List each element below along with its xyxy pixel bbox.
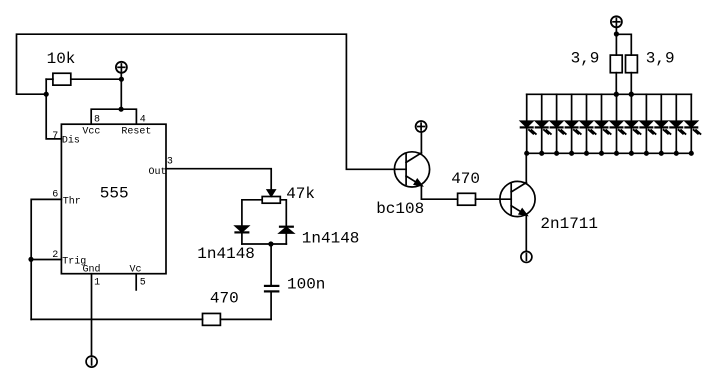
svg-text:470: 470 (451, 170, 480, 188)
resistor R3 470 body (base) (458, 193, 476, 205)
LED diode (x=541.7) (536, 94, 551, 153)
svg-text:1n4148: 1n4148 (197, 245, 255, 263)
junction on LED cathode bus (689, 151, 694, 156)
node junction VCC/10k (119, 77, 124, 82)
svg-text:Vcc: Vcc (82, 127, 100, 138)
diode D2 1n4148 (right, cathode up) (280, 227, 294, 233)
svg-text:Out: Out (149, 167, 167, 178)
wire Q2 collector to LED bus (525, 153, 527, 182)
junction on LED cathode bus (644, 151, 649, 156)
resistor R2 470 body (bottom) (203, 313, 221, 325)
resistor R5 3,9 body (right) (626, 55, 638, 73)
wire junction to capacitor (270, 244, 272, 285)
node junction Dis/10k (44, 92, 49, 97)
wire LED anode bus (527, 93, 692, 95)
wire pin5 stub (135, 274, 137, 290)
svg-text:7: 7 (52, 131, 58, 142)
junction on LED cathode bus (524, 151, 529, 156)
node junction VCC branch (614, 31, 619, 36)
resistor R4 3,9 body (left) (610, 55, 622, 73)
wire VCC branch to right 3,9 resistor (616, 34, 631, 55)
power VCC symbol (bc108) (416, 121, 427, 132)
wire Dis column (46, 79, 61, 139)
svg-text:3,9: 3,9 (571, 50, 600, 68)
wire diode bottom link (242, 243, 286, 245)
wire bottom bus right (220, 318, 271, 320)
svg-text:Thr: Thr (63, 196, 81, 208)
LED diode (x=691.3) (685, 94, 700, 153)
wire D1 to junction (241, 232, 243, 244)
svg-text:3,9: 3,9 (646, 50, 675, 68)
svg-text:4: 4 (140, 114, 146, 125)
ground symbol (555 Gnd) (86, 356, 97, 367)
wire pot left to D1 (242, 200, 262, 226)
node junction diodes/cap (268, 241, 273, 246)
svg-text:10k: 10k (47, 50, 76, 68)
wire Q2 emitter to ground (525, 215, 527, 251)
LED diode (x=586.5) (581, 94, 596, 153)
LED diode (x=631.4) (626, 94, 641, 153)
svg-text:5: 5 (140, 277, 146, 288)
potentiometer P1 47k wiper arrow (267, 190, 275, 196)
LED diode (x=676.3) (670, 94, 685, 153)
svg-text:100n: 100n (287, 275, 325, 293)
wire bc108 collector to VCC (420, 132, 422, 153)
LED diode (x=556.6) (551, 94, 566, 153)
node junction Trig (28, 257, 33, 262)
potentiometer P1 47k body (262, 197, 280, 204)
ground symbol (Q2 emitter) (521, 251, 532, 262)
junction on LED cathode bus (539, 151, 544, 156)
svg-text:8: 8 (94, 114, 100, 125)
LED diode (x=526.7) (521, 94, 536, 153)
svg-text:470: 470 (210, 290, 239, 308)
wire left 3,9 to bus (615, 73, 617, 95)
junction on LED cathode bus (569, 151, 574, 156)
svg-text:bc108: bc108 (376, 200, 424, 218)
transistor Q1 bc108 (394, 152, 429, 187)
wire bottom bus left (31, 318, 202, 320)
wire VCC to left 3,9 resistor (615, 27, 617, 55)
LED diode (x=616.5) (611, 94, 626, 153)
svg-text:47k: 47k (286, 185, 315, 203)
wire Thr/Trig column (31, 199, 61, 319)
power VCC symbol (555) (116, 62, 127, 73)
LED diode (x=571.6) (566, 94, 581, 153)
wire right 3,9 to bus (630, 73, 632, 95)
wire Out to potentiometer (166, 169, 271, 191)
LED diode (x=601.5) (596, 94, 611, 153)
svg-text:3: 3 (167, 156, 173, 167)
timer IC U1 555 body (61, 124, 166, 274)
node junction left 3,9/bus (614, 92, 619, 97)
junction on LED cathode bus (614, 151, 619, 156)
svg-text:Reset: Reset (121, 127, 151, 138)
wire capacitor to bottom bus (270, 292, 272, 320)
node junction bridge (119, 107, 124, 112)
wire pot right to D2 (280, 200, 286, 227)
wire LED cathode bus (527, 152, 692, 154)
power VCC symbol (LED array) (611, 16, 622, 27)
resistor R1 10k leads (46, 78, 53, 80)
svg-text:2n1711: 2n1711 (540, 215, 598, 233)
wire top net: 10k/Dis node to bc108 base (17, 34, 407, 169)
svg-text:1n4148: 1n4148 (302, 230, 360, 248)
wire Trig stub (31, 259, 61, 261)
wire VCC to reset bridge (120, 72, 122, 109)
transistor Q2 2n1711 (500, 181, 535, 216)
diode D1 1n4148 (left, anode up) (236, 226, 249, 232)
wire bc108 emitter to resistor (421, 186, 457, 200)
capacitor C1 100n (265, 286, 278, 292)
svg-text:1: 1 (94, 277, 100, 288)
LED diode (x=646.4) (641, 94, 656, 153)
junction on LED cathode bus (554, 151, 559, 156)
svg-text:Dis: Dis (62, 135, 80, 147)
junction on LED cathode bus (584, 151, 589, 156)
wire D2 to junction (285, 233, 287, 244)
LED diode (x=661.3) (655, 94, 670, 153)
svg-text:555: 555 (100, 185, 129, 203)
junction on LED cathode bus (659, 151, 664, 156)
junction on LED cathode bus (599, 151, 604, 156)
junction on LED cathode bus (629, 151, 634, 156)
wire pin8-pin4 bridge (91, 109, 136, 124)
wire pin1 to ground (91, 274, 93, 356)
node junction right 3,9/bus (629, 92, 634, 97)
junction on LED cathode bus (674, 151, 679, 156)
resistor R1 10k body (53, 73, 71, 85)
wire resistor to Q2 base (476, 198, 512, 200)
